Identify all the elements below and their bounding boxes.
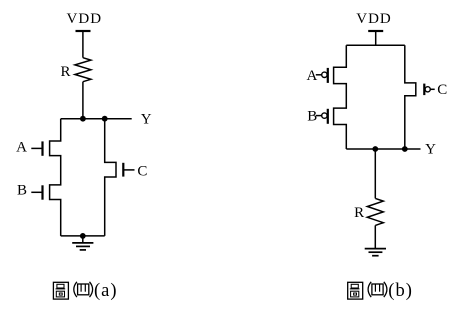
svg-text:A: A <box>306 68 317 84</box>
svg-text:Y: Y <box>425 141 436 157</box>
svg-text:(a): (a) <box>94 281 118 301</box>
svg-text:Y: Y <box>141 111 152 127</box>
svg-text:A: A <box>16 140 27 156</box>
svg-text:VDD: VDD <box>67 11 103 27</box>
svg-text:B: B <box>17 182 27 198</box>
svg-text:C: C <box>437 82 447 98</box>
svg-text:B: B <box>307 109 317 125</box>
svg-text:R: R <box>354 205 364 221</box>
svg-text:C: C <box>137 163 147 179</box>
svg-text:R: R <box>60 64 70 80</box>
svg-text:VDD: VDD <box>356 11 392 27</box>
svg-text:(b): (b) <box>388 281 413 301</box>
